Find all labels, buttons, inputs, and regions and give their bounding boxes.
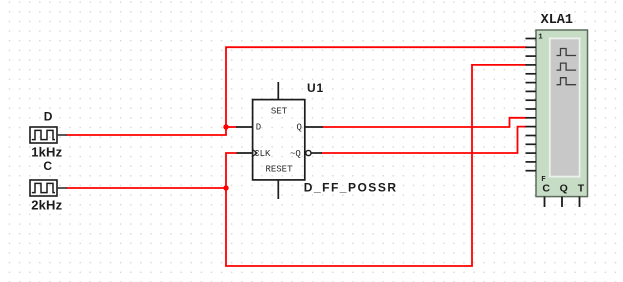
wire ~Q net: FF ~Q to XLA1 pin 11: [322, 127, 527, 153]
logic analyzer XLA1 screen pulse glyph 2: [557, 63, 577, 70]
svg-text:CLK: CLK: [254, 149, 271, 159]
flip-flop U1 body: [253, 100, 305, 180]
svg-text:T: T: [578, 183, 585, 195]
clock source V1 waveform glyph: [32, 130, 55, 139]
flip-flop U1 SET stub: [277, 82, 279, 100]
logic analyzer XLA1 screen pulse glyph 1: [557, 49, 577, 56]
logic analyzer XLA1 bottom pin Q: [561, 197, 563, 207]
flip-flop U1 ~Q inversion bubble: [306, 150, 311, 155]
svg-text:1kHz: 1kHz: [31, 145, 62, 160]
logic analyzer XLA1 screen: [550, 38, 580, 176]
svg-text:D: D: [44, 110, 53, 124]
wire C net: junction down, across bottom, up to XLA1 pin 4: [226, 65, 526, 266]
logic analyzer XLA1 bottom pin C: [544, 197, 546, 207]
junction C net: [223, 185, 228, 190]
wire C net: junction up to FF CLK pin (red part): [226, 153, 237, 188]
svg-text:U1: U1: [307, 81, 324, 95]
logic analyzer XLA1 screen pulse glyph 3: [557, 78, 577, 85]
svg-text:1: 1: [538, 34, 543, 42]
wire Q net: FF Q to XLA1 pin 10: [323, 118, 526, 127]
flip-flop U1 ~Q output pin: [311, 152, 322, 154]
logic analyzer XLA1 body: [536, 30, 588, 197]
clock source V2 waveform glyph: [32, 183, 55, 192]
clock source V1 body: [30, 127, 57, 143]
logic analyzer XLA1 input pins 1-16: [526, 39, 537, 171]
flip-flop U1 RESET stub: [277, 180, 279, 199]
svg-text:Q: Q: [560, 183, 568, 195]
wire D net: junction up and across top to XLA1 pin 2: [226, 47, 526, 127]
svg-text:RESET: RESET: [265, 164, 293, 174]
wire D net: junction to FF D pin (red part): [226, 126, 237, 128]
clock source V1 output pin: [57, 134, 67, 136]
svg-text:D_FF_POSSR: D_FF_POSSR: [304, 181, 398, 195]
svg-text:~Q: ~Q: [290, 149, 301, 159]
flip-flop U1 Q output pin: [305, 126, 323, 128]
flip-flop U1 D input pin: [236, 126, 253, 128]
svg-text:Q: Q: [296, 122, 301, 132]
clock source V2 body: [30, 180, 57, 196]
clock source V2 output pin: [57, 187, 67, 189]
flip-flop U1 CLK input pin: [237, 152, 253, 154]
svg-text:SET: SET: [271, 106, 288, 116]
svg-text:C: C: [43, 159, 52, 173]
svg-text:C: C: [542, 183, 550, 195]
flip-flop U1 CLK edge triangle: [253, 150, 257, 157]
svg-text:D: D: [256, 122, 261, 132]
logic analyzer XLA1 bottom pin T: [579, 197, 581, 207]
svg-text:2kHz: 2kHz: [31, 198, 62, 213]
wire C net: source C to junction: [67, 187, 227, 189]
junction D net: [223, 124, 228, 129]
wire D net: source D to junction: [67, 127, 227, 135]
svg-text:XLA1: XLA1: [541, 13, 573, 28]
